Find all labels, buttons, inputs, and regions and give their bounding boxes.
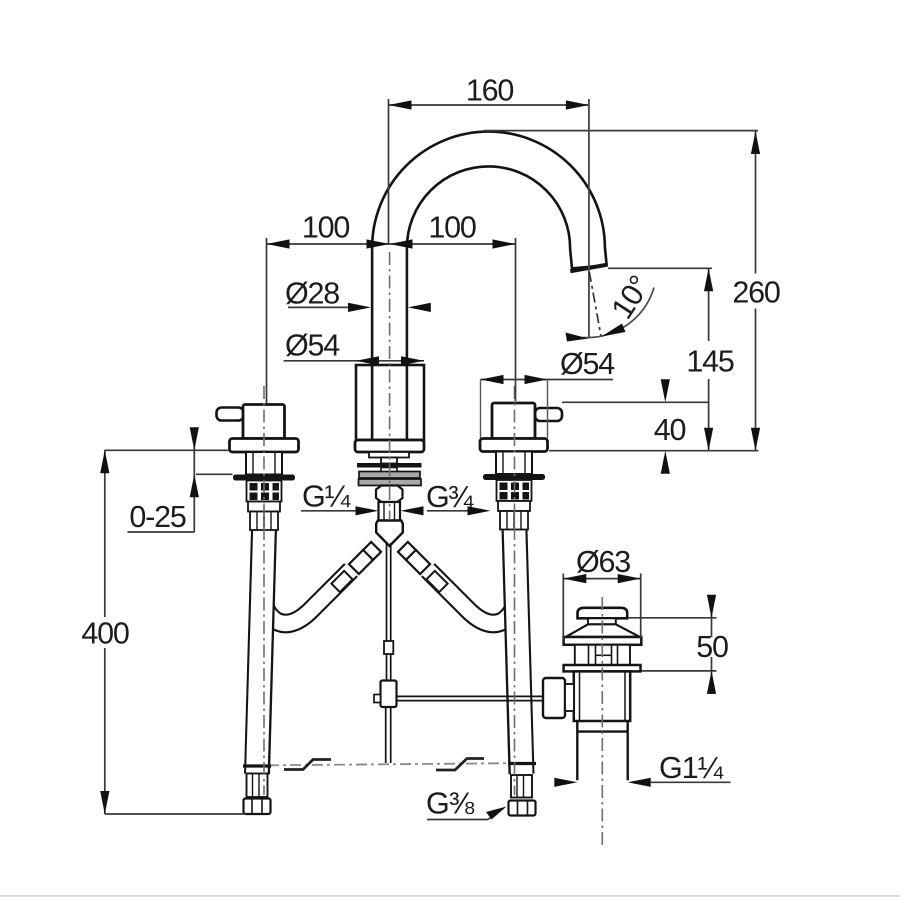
- right valve thread section: [497, 480, 532, 501]
- 10 degree vertical reference line: [588, 99, 590, 339]
- deck break zigzag 2: [436, 759, 484, 771]
- left transfer hose (curved): [263, 570, 351, 623]
- spout deck flange: [355, 440, 424, 452]
- deck break crossing left hose: [243, 764, 271, 767]
- Y fitting right nipple: [398, 542, 417, 561]
- bottom page border: [0, 895, 900, 897]
- label G1 1/4: [651, 781, 731, 783]
- Y fitting left nipple: [362, 542, 381, 561]
- right hose end ferrule: [511, 775, 532, 798]
- left valve flange: [230, 439, 299, 453]
- drain mid section: [575, 645, 630, 665]
- dimension 40: [549, 402, 759, 450]
- deck break line dashdot: [246, 763, 536, 766]
- drain centerline: [601, 597, 603, 845]
- Y fitting body: [376, 521, 403, 547]
- svg-text:G¼: G¼: [302, 480, 351, 514]
- top reference line (spout top): [484, 130, 758, 132]
- drain tailpipe: [577, 721, 627, 780]
- G3/8 leader arrow: [486, 807, 507, 820]
- drain pop-up plug cap: [578, 608, 628, 619]
- drain lever boss: [543, 678, 565, 718]
- pop-up rod mid: [387, 654, 391, 680]
- spout threaded shank G1/4: [379, 502, 401, 521]
- svg-text:0-25: 0-25: [129, 500, 185, 534]
- left hose end ferrule: [247, 774, 268, 798]
- svg-text:260: 260: [732, 276, 780, 310]
- 10 degree arc: [583, 288, 654, 338]
- svg-text:145: 145: [686, 345, 734, 379]
- right valve body: [492, 403, 535, 439]
- dimension 160: [389, 99, 589, 339]
- pop-up rod lower: [386, 707, 391, 763]
- svg-text:G⅜: G⅜: [426, 787, 475, 821]
- spout base neck lower: [381, 468, 397, 473]
- svg-text:50: 50: [696, 630, 728, 664]
- deck break zigzag 1: [284, 760, 331, 770]
- spout base neck upper: [381, 458, 397, 464]
- dimension 145: [608, 268, 712, 451]
- label G3/4: [427, 510, 470, 512]
- dimension Ø28: [288, 306, 350, 308]
- spout gooseneck tube: [390, 149, 590, 441]
- drain plug neck: [588, 618, 616, 624]
- right transfer hose nut: [426, 571, 447, 592]
- right valve flange: [480, 439, 548, 452]
- svg-text:G1¼: G1¼: [659, 751, 724, 785]
- right valve hose coupler: [498, 501, 530, 511]
- 10 degree arc arrow right: [602, 324, 626, 337]
- horizontal drain rod: [397, 696, 544, 700]
- dimension 50: [628, 598, 717, 694]
- dimension Ø54 (spout): [284, 360, 424, 362]
- dimension Ø54 (right valve): [481, 379, 614, 381]
- right supply hose: [515, 528, 522, 775]
- spout hex nut: [376, 486, 403, 503]
- svg-text:Ø54: Ø54: [285, 329, 340, 363]
- Y fitting right nut: [406, 550, 430, 574]
- left valve lever: [217, 408, 244, 421]
- pop-up joint side stub: [374, 695, 381, 703]
- right valve centerline: [514, 386, 516, 795]
- pop-up rod upper: [387, 543, 391, 641]
- right transfer hose (curved): [428, 570, 516, 623]
- spout base step: [369, 452, 409, 458]
- right hose G3/8 nut: [509, 801, 536, 816]
- left valve centerline: [263, 386, 265, 795]
- left valve gasket: [233, 475, 295, 481]
- dimension 100 / 100: [267, 238, 516, 403]
- spout gasket black bar: [357, 463, 422, 468]
- left valve crimp ferrule: [250, 512, 278, 531]
- dimension 0-25: [105, 429, 233, 532]
- left valve thread section: [247, 481, 282, 502]
- left valve shank: [246, 452, 282, 475]
- svg-text:Ø63: Ø63: [576, 545, 630, 579]
- svg-text:40: 40: [654, 413, 686, 447]
- label G1/4: [301, 510, 357, 512]
- Y fitting left nut: [349, 550, 373, 574]
- left transfer hose nut: [331, 571, 352, 592]
- drain body: [574, 671, 630, 721]
- right valve gasket: [483, 474, 545, 480]
- dimension 260: [755, 131, 757, 451]
- spout outlet end face (10 deg): [570, 263, 608, 274]
- left supply hose: [257, 528, 264, 775]
- left hose G3/8 nut: [244, 799, 271, 815]
- svg-text:Ø28: Ø28: [285, 277, 339, 311]
- drain upper flange: [564, 637, 642, 645]
- svg-text:Ø54: Ø54: [560, 347, 615, 381]
- svg-text:400: 400: [81, 617, 129, 651]
- right valve shank: [496, 452, 532, 475]
- 10 degree arc arrow left: [566, 333, 589, 342]
- spout washer 2: [359, 479, 422, 486]
- spout centerline: [389, 252, 391, 520]
- svg-text:160: 160: [466, 74, 514, 108]
- svg-text:100: 100: [302, 211, 350, 245]
- pop-up rod connector: [384, 641, 393, 654]
- drain flared cone: [566, 624, 640, 637]
- svg-text:100: 100: [428, 211, 476, 245]
- dimension 400: [105, 450, 246, 814]
- drain lower flange: [564, 665, 641, 671]
- drain lever sleeve: [565, 684, 574, 711]
- left valve hose coupler: [248, 502, 280, 512]
- pop-up rod joint block: [381, 681, 397, 708]
- 10 degree tilted centerline: [589, 272, 601, 337]
- right valve crimp ferrule: [500, 511, 528, 530]
- spout base sleeve (Ø54): [356, 365, 424, 440]
- dimension Ø63: [563, 574, 640, 641]
- svg-text:G¾: G¾: [426, 480, 474, 514]
- deck break crossing right hose: [508, 762, 536, 765]
- spout washer 1: [359, 472, 420, 479]
- right valve lever: [535, 408, 562, 421]
- left valve body: [243, 405, 285, 439]
